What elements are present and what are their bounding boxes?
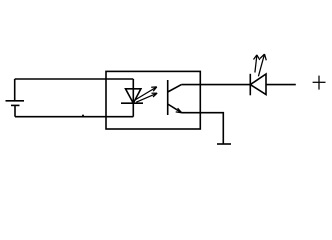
ground bbox=[217, 143, 231, 145]
battery B1 bbox=[6, 79, 25, 117]
junction tick on bottom wire bbox=[82, 114, 84, 116]
LED D1 cathode wire bbox=[132, 103, 134, 117]
wire collector to LED D2 bbox=[181, 84, 250, 86]
phototransistor Q1 base bar bbox=[167, 80, 169, 115]
+ terminal bbox=[313, 76, 326, 90]
light arrow 4 bbox=[258, 54, 266, 76]
optocoupler U1 package bbox=[106, 71, 200, 129]
LED D2 cathode bar bbox=[249, 74, 251, 96]
wire top from battery to LED anode bbox=[15, 78, 134, 80]
wire emitter to ground bbox=[182, 113, 224, 144]
wire LED D2 anode to + terminal bbox=[266, 84, 296, 86]
LED D1 anode wire bbox=[132, 79, 134, 103]
LED D2 bbox=[250, 74, 266, 95]
light arrow 1 bbox=[136, 87, 157, 100]
light arrow 2 bbox=[136, 93, 157, 102]
phototransistor Q1 collector bbox=[168, 85, 182, 92]
LED D1 bbox=[121, 89, 143, 103]
wire bottom from battery to LED cathode bbox=[15, 116, 133, 118]
phototransistor Q1 emitter with arrow bbox=[168, 104, 182, 113]
light arrow 3 bbox=[254, 55, 260, 73]
